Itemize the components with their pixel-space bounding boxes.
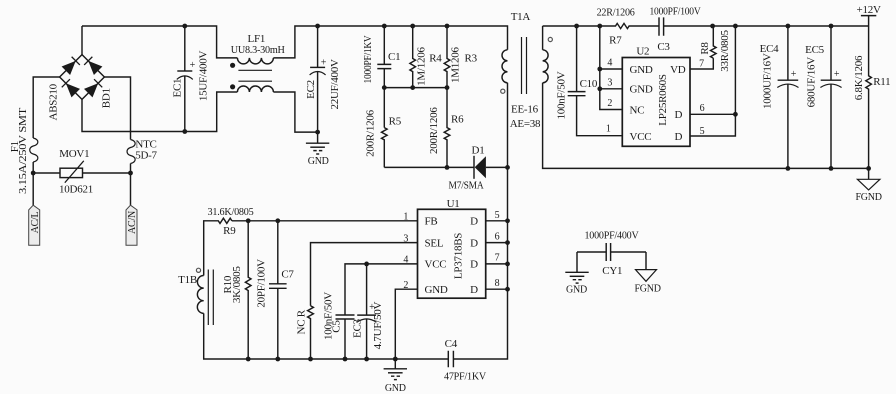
svg-text:D1: D1 — [472, 145, 485, 157]
svg-text:CY1: CY1 — [602, 265, 622, 277]
svg-text:20PF/100V: 20PF/100V — [255, 259, 267, 308]
svg-text:R7: R7 — [609, 35, 622, 47]
svg-text:15UF/400V: 15UF/400V — [198, 51, 210, 102]
svg-text:U2: U2 — [636, 46, 649, 58]
svg-text:5: 5 — [700, 126, 705, 137]
svg-text:7: 7 — [495, 253, 500, 264]
svg-text:UU8.3-30mH: UU8.3-30mH — [231, 44, 285, 56]
svg-text:31.6K/0805: 31.6K/0805 — [208, 206, 255, 218]
svg-text:200R/1206: 200R/1206 — [364, 109, 376, 156]
svg-text:SEL: SEL — [425, 237, 444, 249]
svg-text:D: D — [470, 216, 478, 228]
svg-text:EC4: EC4 — [760, 43, 780, 55]
svg-text:6: 6 — [700, 103, 705, 114]
svg-text:R8: R8 — [699, 42, 711, 55]
svg-text:1000PF/100V: 1000PF/100V — [650, 6, 701, 18]
svg-text:GND: GND — [385, 383, 406, 394]
svg-text:200R/1206: 200R/1206 — [428, 107, 440, 154]
svg-text:4: 4 — [403, 255, 408, 266]
svg-text:+: + — [190, 60, 196, 71]
svg-text:T1A: T1A — [511, 11, 531, 23]
svg-text:6: 6 — [495, 232, 500, 243]
svg-text:AC/L: AC/L — [30, 211, 41, 233]
svg-text:1M/1206: 1M/1206 — [415, 47, 427, 86]
svg-text:C5: C5 — [331, 320, 343, 333]
svg-text:6.8K/1206: 6.8K/1206 — [853, 55, 865, 100]
svg-text:+: + — [834, 69, 840, 80]
svg-text:D: D — [675, 131, 683, 143]
svg-text:R11: R11 — [873, 76, 890, 88]
svg-text:GND: GND — [308, 156, 329, 167]
svg-text:8: 8 — [495, 278, 500, 289]
svg-text:100nF/50V: 100nF/50V — [555, 71, 567, 119]
svg-text:2: 2 — [403, 280, 408, 291]
svg-text:+12V: +12V — [857, 4, 881, 16]
svg-text:47PF/1KV: 47PF/1KV — [444, 371, 486, 383]
svg-text:C4: C4 — [445, 338, 458, 350]
svg-text:BD1: BD1 — [101, 88, 113, 108]
svg-text:3: 3 — [607, 77, 612, 88]
svg-text:R6: R6 — [451, 114, 464, 126]
svg-text:GND: GND — [425, 284, 448, 296]
svg-text:FGND: FGND — [855, 192, 881, 203]
svg-text:+: + — [791, 69, 797, 80]
svg-text:1: 1 — [403, 212, 408, 223]
svg-text:D: D — [470, 237, 478, 249]
svg-text:+: + — [321, 58, 327, 69]
svg-text:ABS210: ABS210 — [47, 83, 59, 120]
svg-text:33R/0805: 33R/0805 — [719, 30, 731, 72]
svg-text:D: D — [675, 109, 683, 121]
svg-text:EC2: EC2 — [305, 80, 317, 99]
svg-text:M7/SMA: M7/SMA — [449, 180, 484, 192]
svg-text:NC R: NC R — [296, 309, 308, 334]
svg-text:3K/0805: 3K/0805 — [231, 266, 243, 304]
svg-text:2: 2 — [607, 98, 612, 109]
svg-text:LP25R060S: LP25R060S — [657, 74, 669, 126]
svg-text:GND: GND — [566, 285, 587, 296]
svg-text:D: D — [470, 284, 478, 296]
svg-text:GND: GND — [630, 84, 653, 96]
svg-text:22UF/400V: 22UF/400V — [329, 59, 341, 110]
svg-text:5D-7: 5D-7 — [135, 149, 157, 161]
svg-text:C10: C10 — [580, 78, 598, 90]
svg-text:AE=38: AE=38 — [510, 118, 541, 130]
svg-text:1: 1 — [606, 124, 611, 135]
svg-text:10D621: 10D621 — [59, 183, 93, 195]
svg-text:1000PF/1KV: 1000PF/1KV — [362, 35, 374, 83]
svg-text:1M1206: 1M1206 — [450, 46, 462, 83]
svg-text:EC5: EC5 — [805, 44, 825, 56]
svg-text:T1B: T1B — [178, 274, 197, 286]
svg-text:+: + — [369, 302, 375, 313]
svg-text:MOV1: MOV1 — [59, 148, 89, 160]
svg-text:22R/1206: 22R/1206 — [597, 6, 636, 18]
svg-text:R5: R5 — [389, 116, 402, 128]
svg-text:VCC: VCC — [425, 259, 447, 271]
svg-text:3: 3 — [403, 233, 408, 244]
svg-text:VD: VD — [670, 64, 686, 76]
svg-text:5: 5 — [495, 210, 500, 221]
svg-text:AC/N: AC/N — [127, 211, 138, 234]
svg-text:3.15A/250V SMT: 3.15A/250V SMT — [17, 107, 29, 194]
svg-text:U1: U1 — [447, 198, 460, 210]
svg-text:D: D — [470, 259, 478, 271]
svg-text:1000UF/16V: 1000UF/16V — [762, 53, 774, 109]
svg-text:C1: C1 — [388, 51, 400, 63]
svg-text:EC3: EC3 — [352, 318, 364, 338]
svg-text:R9: R9 — [223, 225, 236, 237]
svg-text:LP3718BS: LP3718BS — [453, 233, 465, 279]
svg-text:EC1: EC1 — [172, 79, 184, 98]
svg-text:R4: R4 — [429, 53, 442, 65]
svg-text:4: 4 — [607, 58, 612, 69]
svg-text:NC: NC — [630, 104, 645, 116]
svg-text:R3: R3 — [465, 53, 478, 65]
svg-text:1000PF/400V: 1000PF/400V — [585, 229, 639, 241]
svg-text:C3: C3 — [657, 41, 670, 53]
svg-text:7: 7 — [699, 58, 704, 69]
svg-text:EE-16: EE-16 — [511, 104, 539, 116]
svg-text:VCC: VCC — [630, 131, 652, 143]
svg-text:680UF/16V: 680UF/16V — [805, 57, 817, 108]
svg-text:FB: FB — [425, 216, 438, 228]
svg-text:C7: C7 — [281, 268, 294, 280]
svg-text:FGND: FGND — [634, 284, 660, 295]
svg-text:GND: GND — [630, 64, 653, 76]
